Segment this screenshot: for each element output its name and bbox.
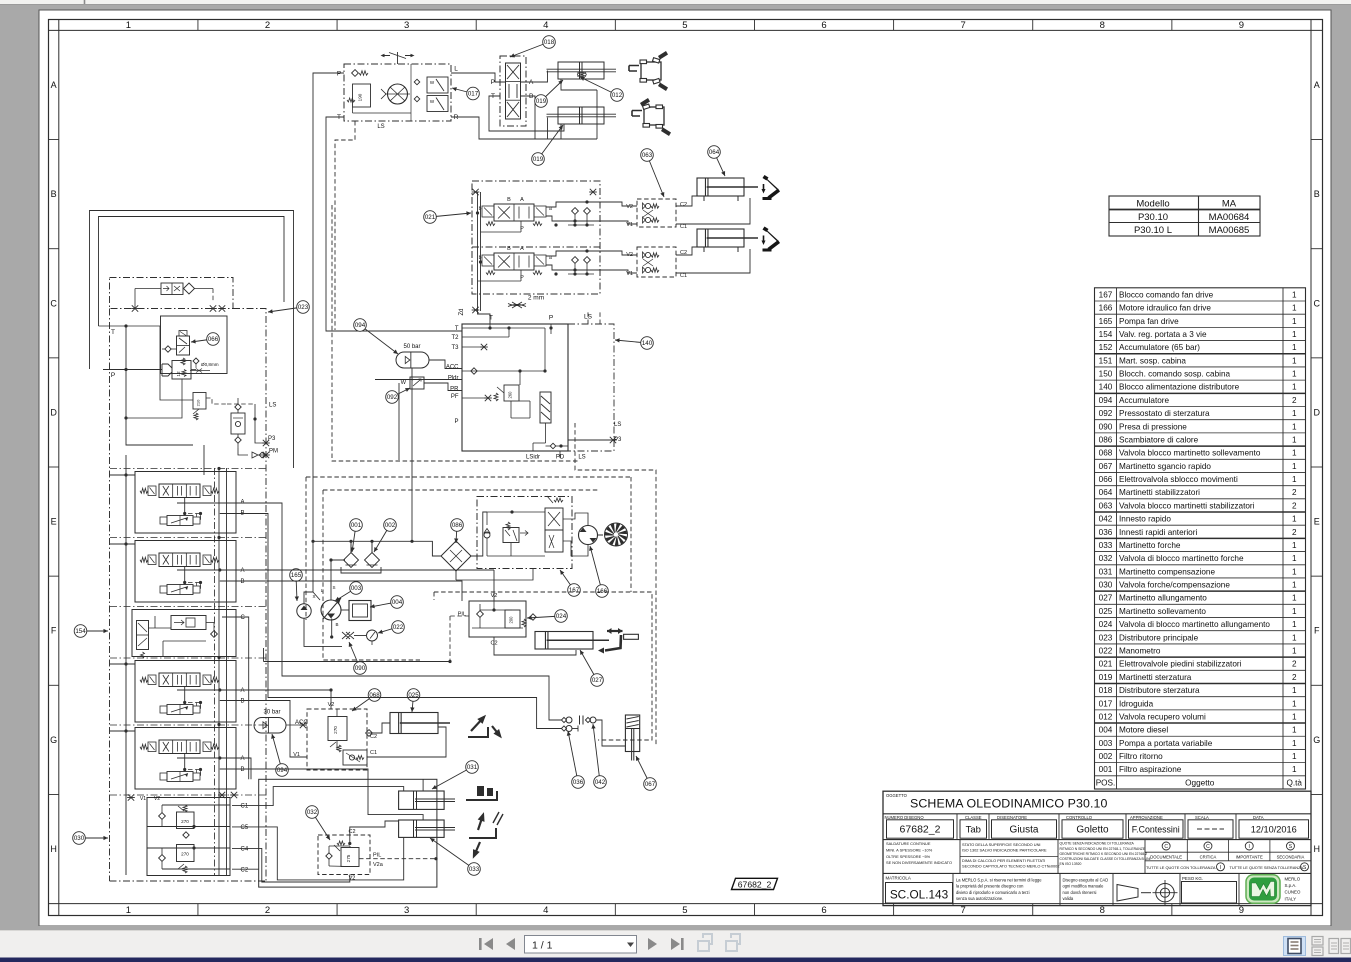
svg-text:S.p.A.: S.p.A. [1285, 883, 1297, 888]
stabilizer solenoid block 021 [472, 181, 600, 294]
wires 068 circuit [177, 690, 331, 709]
balloon 090 [349, 642, 367, 674]
svg-text:140: 140 [642, 340, 653, 347]
svg-text:GEOMETRICHE RITMICO K SECOND: GEOMETRICHE RITMICO K SECONDO UNI EN 227… [1060, 852, 1148, 856]
stabilizer cylinder 064 lower [697, 229, 758, 247]
first page button [479, 938, 493, 950]
svg-text:270: 270 [181, 819, 189, 824]
svg-text:OGGETTO: OGGETTO [886, 793, 908, 798]
balloon 019 [535, 80, 563, 107]
svg-text:Pompa fan drive: Pompa fan drive [1119, 317, 1179, 326]
svg-text:Martinetto sgancio rapido: Martinetto sgancio rapido [1119, 462, 1211, 471]
svg-text:Presa di pressione: Presa di pressione [1119, 422, 1187, 431]
steering directional valve 018 [500, 56, 526, 126]
svg-text:PF: PF [451, 394, 459, 400]
svg-text:L: L [454, 66, 458, 73]
svg-text:140: 140 [1099, 383, 1113, 392]
svg-text:Martinetto allungamento: Martinetto allungamento [1119, 594, 1207, 603]
svg-text:G: G [1313, 735, 1320, 745]
svg-text:C5: C5 [241, 825, 249, 831]
title block [883, 791, 1311, 905]
svg-text:B: B [241, 767, 245, 773]
svg-text:X: X [312, 594, 315, 599]
grid reference letters [49, 80, 1323, 854]
svg-text:017: 017 [468, 91, 479, 98]
fan drive control block 167 [477, 496, 572, 569]
svg-text:033: 033 [469, 866, 480, 873]
fan blades [605, 523, 628, 546]
svg-text:C1: C1 [680, 273, 687, 279]
svg-text:QUOTE SENZA INDICAZIONE DI TOL: QUOTE SENZA INDICAZIONE DI TOLLERANZA [1060, 842, 1135, 846]
svg-text:DIMA DI CALCOLO PER ELEMENTI F: DIMA DI CALCOLO PER ELEMENTI FILETTATI [962, 858, 1045, 863]
svg-text:Martinetto forche: Martinetto forche [1119, 541, 1181, 550]
svg-text:CRITICA: CRITICA [1200, 854, 1217, 859]
svg-text:017: 017 [1099, 699, 1113, 708]
svg-text:C: C [1164, 844, 1168, 850]
svg-text:2: 2 [1292, 501, 1297, 510]
cab suspension block 150 [110, 278, 234, 309]
svg-text:086: 086 [452, 522, 463, 529]
bank boundary separators [110, 468, 266, 470]
unlock solenoid valve 066 [162, 331, 190, 366]
svg-text:P3: P3 [268, 436, 276, 442]
distributor feed block 140 [462, 324, 614, 451]
parts list table [1095, 288, 1306, 789]
svg-text:042: 042 [595, 779, 606, 786]
svg-text:1: 1 [1292, 370, 1297, 379]
wires 021 to counterbalance [546, 202, 600, 207]
svg-text:165: 165 [291, 572, 302, 579]
svg-text:1: 1 [1292, 581, 1297, 590]
compensation cylinder 031 [399, 791, 455, 809]
svg-text:67682_2: 67682_2 [900, 824, 941, 836]
svg-text:019: 019 [1099, 673, 1113, 682]
svg-text:Martinetto sollevamento: Martinetto sollevamento [1119, 607, 1206, 616]
svg-text:V1: V1 [626, 271, 633, 277]
svg-text:9: 9 [1239, 20, 1244, 31]
svg-text:1: 1 [1292, 607, 1297, 616]
svg-text:A: A [241, 568, 245, 574]
svg-text:1: 1 [1292, 594, 1297, 603]
svg-text:1: 1 [1292, 422, 1297, 431]
svg-text:IMPORTANTE: IMPORTANTE [1236, 854, 1263, 859]
svg-text:024: 024 [556, 613, 567, 620]
balloon 023 [268, 301, 309, 314]
svg-text:A: A [520, 197, 524, 203]
wire P to steering [313, 73, 344, 600]
svg-text:004: 004 [392, 599, 403, 606]
svg-text:Valvola di blocco martinetto f: Valvola di blocco martinetto forche [1119, 554, 1244, 563]
balloon 018 [510, 36, 555, 58]
svg-text:Goletto: Goletto [1076, 825, 1109, 836]
svg-text:I: I [1249, 844, 1250, 850]
svg-text:003: 003 [1099, 739, 1113, 748]
svg-text:V2: V2 [626, 252, 633, 258]
svg-text:1: 1 [1292, 449, 1297, 458]
svg-text:063: 063 [1099, 501, 1113, 510]
accumulator 094 (30 bar) [254, 710, 308, 734]
svg-text:1: 1 [1292, 304, 1297, 313]
svg-text:021: 021 [1099, 660, 1113, 669]
svg-text:1: 1 [126, 905, 131, 916]
svg-text:H: H [1313, 844, 1320, 854]
svg-text:019: 019 [533, 156, 544, 163]
svg-text:SALDATURE CONTINUE: SALDATURE CONTINUE [886, 841, 931, 846]
svg-text:Valv. reg. portata a 3 vie: Valv. reg. portata a 3 vie [1119, 330, 1207, 339]
svg-text:C2: C2 [370, 734, 377, 740]
stabilizer movement icon upper [762, 175, 781, 200]
cooler outlet to fan block [471, 512, 487, 556]
balloon 019 [532, 125, 563, 165]
pump suction/delivery wires [350, 541, 352, 552]
svg-text:066: 066 [208, 336, 219, 343]
svg-text:150: 150 [1099, 370, 1113, 379]
svg-text:166: 166 [1099, 304, 1113, 313]
svg-text:4: 4 [543, 905, 548, 916]
svg-text:1: 1 [1292, 633, 1297, 642]
svg-text:036: 036 [573, 779, 584, 786]
return line to cooler [313, 541, 441, 556]
volume recovery valve 012 on piston [578, 73, 587, 77]
svg-text:W: W [401, 380, 407, 386]
svg-text:064: 064 [709, 149, 720, 156]
svg-text:A: A [529, 79, 534, 86]
balloon 032 [306, 806, 330, 840]
wires 063 to stabilizer cylinders [676, 196, 697, 206]
svg-text:Giusta: Giusta [1010, 825, 1039, 836]
svg-text:T3: T3 [451, 345, 459, 351]
lift cylinder 025 [390, 713, 450, 734]
svg-text:002: 002 [1099, 752, 1113, 761]
bank section 1 box [135, 472, 236, 534]
svg-text:CUNEO: CUNEO [1285, 890, 1301, 895]
svg-text:F.Contessini: F.Contessini [1132, 825, 1180, 835]
svg-text:B: B [241, 579, 245, 585]
bank section 2 box [135, 541, 236, 603]
svg-text:R: R [454, 114, 459, 121]
svg-text:T: T [337, 114, 341, 121]
quick coupler 042 [585, 717, 596, 723]
fork tilt icon [469, 812, 503, 859]
svg-text:G: G [50, 735, 57, 745]
balloon 025 [407, 689, 420, 712]
shuttle checks upper [572, 208, 579, 215]
svg-text:P: P [337, 71, 341, 78]
model table [1109, 196, 1260, 236]
svg-text:Accumulatore: Accumulatore [1119, 396, 1170, 405]
suction filter 001 [344, 541, 359, 568]
svg-text:6: 6 [821, 905, 826, 916]
page number combo [525, 936, 637, 954]
svg-text:022: 022 [393, 624, 404, 631]
svg-text:SECONDARIA: SECONDARIA [1277, 854, 1305, 859]
diesel engine gearbox 004 [341, 601, 371, 621]
svg-text:167: 167 [569, 587, 580, 594]
svg-text:Martinetto compensazione: Martinetto compensazione [1119, 567, 1215, 576]
svg-text:B: B [241, 699, 245, 705]
balloon 004 [370, 596, 403, 609]
balloon 154 [74, 625, 108, 638]
pressure gauge 022 [367, 630, 378, 645]
svg-text:022: 022 [1099, 647, 1113, 656]
coupler break [579, 716, 581, 725]
svg-text:D: D [1313, 407, 1320, 417]
wires compensation circuit [177, 758, 251, 779]
svg-text:divieto di riprodurlo e comuni: divieto di riprodurlo e comunicarlo a te… [956, 890, 1030, 895]
svg-text:154: 154 [75, 628, 86, 635]
svg-text:2: 2 [1292, 660, 1297, 669]
shuttle checks lower [572, 257, 579, 264]
svg-text:T: T [111, 329, 115, 336]
svg-text:Motore diesel: Motore diesel [1119, 726, 1168, 735]
Merlo logo [1246, 875, 1280, 904]
svg-text:1: 1 [1292, 541, 1297, 550]
svg-text:090: 090 [1099, 422, 1113, 431]
svg-text:V2a: V2a [373, 862, 384, 868]
svg-text:Valvola forche/compensazione: Valvola forche/compensazione [1119, 581, 1230, 590]
tank bracket [341, 567, 381, 573]
lines inlet -- [126, 326, 193, 445]
svg-text:031: 031 [1099, 567, 1113, 576]
svg-text:031: 031 [467, 764, 478, 771]
svg-text:MINI. A SPESSORE −10%: MINI. A SPESSORE −10% [886, 848, 933, 853]
svg-text:C2: C2 [241, 868, 249, 874]
svg-text:SCHEMA OLEODINAMICO P30.10: SCHEMA OLEODINAMICO P30.10 [910, 796, 1107, 810]
svg-text:POS.: POS. [1096, 778, 1116, 787]
svg-text:6: 6 [821, 20, 826, 31]
two-page layout button [1329, 939, 1351, 954]
svg-text:Innesti rapidi anteriori: Innesti rapidi anteriori [1119, 528, 1197, 537]
svg-text:151: 151 [1099, 356, 1113, 365]
svg-text:B: B [507, 197, 511, 203]
machine boundary dashed [332, 205, 578, 461]
extension cylinder 027 [535, 632, 609, 650]
svg-text:OLTRE SPESSORE −5%: OLTRE SPESSORE −5% [886, 854, 931, 859]
svg-text:1: 1 [1292, 712, 1297, 721]
svg-text:LSidr: LSidr [526, 455, 540, 461]
bank section 5 pilot valve [167, 772, 193, 782]
bank section 2 pilot valve [167, 585, 193, 595]
svg-text:Valvola di blocco martinetto a: Valvola di blocco martinetto allungament… [1119, 620, 1270, 629]
stabilizer cylinder 064 upper [697, 178, 758, 196]
balloon 064 [708, 146, 725, 176]
balloon 021 [424, 211, 471, 224]
grid reference numbers [126, 20, 1244, 916]
svg-text:PM: PM [269, 449, 278, 455]
svg-text:Zd: Zd [459, 308, 465, 315]
balloon 033 [430, 838, 480, 875]
svg-text:Accumulatore (65 bar): Accumulatore (65 bar) [1119, 343, 1200, 352]
inlet plate box [161, 316, 228, 374]
svg-text:025: 025 [1099, 607, 1113, 616]
svg-text:C: C [1206, 844, 1210, 850]
svg-text:Valvola blocco martinetti stab: Valvola blocco martinetti stabilizzatori [1119, 501, 1255, 510]
svg-text:Elettrovalvola sblocco movimen: Elettrovalvola sblocco movimenti [1119, 475, 1238, 484]
last page button [671, 938, 684, 950]
svg-text:LS: LS [578, 455, 585, 461]
svg-text:1: 1 [1292, 726, 1297, 735]
svg-text:1: 1 [1292, 620, 1297, 629]
svg-text:027: 027 [1099, 594, 1113, 603]
svg-text:1: 1 [1292, 554, 1297, 563]
balloon 067 [636, 756, 656, 790]
heat exchanger 086 [441, 541, 471, 580]
balloon 140 [615, 337, 653, 350]
svg-text:3: 3 [404, 20, 409, 31]
boundary 023 dash-dot [110, 309, 267, 882]
pressure switch 092 [401, 377, 462, 391]
svg-text:9: 9 [1239, 905, 1244, 916]
svg-text:P: P [454, 419, 458, 425]
balloon 063 [641, 149, 665, 197]
svg-text:MATRICOLA: MATRICOLA [886, 876, 911, 881]
svg-text:ogni modifica manuale: ogni modifica manuale [1063, 884, 1105, 889]
svg-text:COSTRUZIONI SALDATE CLASSE DI: COSTRUZIONI SALDATE CLASSE DI TOLLERANZA… [1060, 857, 1151, 861]
block 140 internals [462, 324, 568, 451]
svg-text:7: 7 [961, 20, 966, 31]
next page button [648, 938, 657, 950]
svg-text:B: B [507, 246, 511, 252]
drawing number flag 67682_2 [732, 878, 778, 889]
bank inlet regulator section [132, 610, 236, 659]
svg-text:C2: C2 [680, 202, 687, 208]
svg-text:021: 021 [425, 214, 436, 221]
wire Pldr [375, 379, 462, 381]
counterbalance valve block 063 lower [637, 247, 676, 277]
fan circuit wires [563, 513, 588, 526]
top toolbar remnant strip [0, 0, 1351, 5]
svg-text:Blocch. comando sosp. cabina: Blocch. comando sosp. cabina [1119, 370, 1230, 379]
svg-text:030: 030 [74, 835, 85, 842]
svg-text:1 / 1: 1 / 1 [532, 940, 553, 952]
svg-text:ITALY: ITALY [1285, 896, 1297, 901]
svg-text:167: 167 [1099, 290, 1113, 299]
svg-text:1: 1 [1292, 317, 1297, 326]
svg-text:E: E [1314, 517, 1320, 527]
balloon 042 [591, 724, 606, 788]
svg-text:2: 2 [1292, 673, 1297, 682]
svg-text:094: 094 [355, 322, 366, 329]
svg-text:Valvola blocco martinetto soll: Valvola blocco martinetto sollevamento [1119, 449, 1261, 458]
svg-text:30 bar: 30 bar [263, 710, 280, 716]
svg-text:E: E [51, 517, 57, 527]
svg-text:LS: LS [614, 422, 621, 428]
svg-text:Pressostato di sterzatura: Pressostato di sterzatura [1119, 409, 1210, 418]
svg-text:Filtro ritorno: Filtro ritorno [1119, 752, 1163, 761]
svg-text:1: 1 [1292, 409, 1297, 418]
svg-text:Elettrovalvole piedini stabili: Elettrovalvole piedini stabilizzatori [1119, 660, 1242, 669]
balloon 001 [350, 519, 363, 552]
svg-text:V1: V1 [626, 222, 633, 228]
svg-text:032: 032 [307, 809, 318, 816]
svg-text:5: 5 [682, 20, 687, 31]
svg-text:1: 1 [1292, 383, 1297, 392]
svg-text:Manometro: Manometro [1119, 647, 1161, 656]
svg-text:ISO 1302 SALVO INDICAZIONE PAR: ISO 1302 SALVO INDICAZIONE PARTICOLARE [962, 847, 1047, 852]
continuous layout button [1312, 937, 1323, 956]
svg-text:SC.OL.143: SC.OL.143 [890, 888, 949, 902]
single page layout button (active) [1284, 937, 1306, 956]
wires 024 circuit [494, 637, 576, 655]
svg-text:D: D [50, 407, 57, 417]
wire LS steering (pilot) [335, 121, 355, 330]
svg-text:260: 260 [508, 391, 513, 399]
svg-text:152: 152 [1099, 343, 1113, 352]
svg-text:LS: LS [269, 403, 276, 409]
svg-text:Modello: Modello [1136, 199, 1169, 210]
svg-text:C: C [241, 615, 246, 621]
balloon 167 [560, 570, 580, 596]
wire main left riser outer [90, 211, 294, 469]
svg-text:025: 025 [408, 692, 419, 699]
svg-text:003: 003 [351, 585, 362, 592]
svg-text:A: A [1314, 80, 1320, 90]
svg-text:V1: V1 [140, 796, 146, 802]
relief 210 [193, 393, 227, 421]
balloon 027 [580, 650, 603, 686]
svg-text:090: 090 [355, 665, 366, 672]
wire T from steering [326, 117, 462, 331]
svg-text:TUTTE LE QUOTE SENZA TOLLERANZ: TUTTE LE QUOTE SENZA TOLLERANZA [1230, 865, 1304, 870]
svg-text:001: 001 [351, 522, 362, 529]
svg-text:Tab: Tab [966, 825, 981, 836]
test point 090 [342, 632, 354, 639]
svg-text:Distributore sterzatura: Distributore sterzatura [1119, 686, 1200, 695]
pressure reducer 12 [103, 361, 191, 380]
svg-text:2: 2 [265, 20, 270, 31]
svg-text:P30.10 L: P30.10 L [1134, 225, 1172, 236]
balloon 086 [451, 519, 464, 543]
svg-text:001: 001 [1099, 765, 1113, 774]
balloon 002 [374, 519, 396, 552]
svg-text:1: 1 [1292, 343, 1297, 352]
svg-text:Idroguida: Idroguida [1119, 699, 1154, 708]
svg-text:V2: V2 [626, 204, 633, 210]
variable displacement pump 003 [312, 585, 341, 627]
fork block valve 032 [318, 835, 370, 875]
svg-text:032: 032 [1099, 554, 1113, 563]
svg-text:018: 018 [544, 39, 555, 46]
svg-text:PIL: PIL [373, 853, 381, 859]
svg-text:036: 036 [1099, 528, 1113, 537]
svg-text:8: 8 [1100, 20, 1105, 31]
svg-text:H: H [50, 844, 57, 854]
svg-text:MA: MA [1222, 199, 1237, 210]
LS line to P3 [559, 451, 561, 458]
steering axle icon upper [629, 51, 668, 91]
svg-text:Oggetto: Oggetto [1185, 778, 1215, 787]
svg-text:200: 200 [509, 616, 514, 624]
svg-text:F: F [1314, 626, 1320, 636]
svg-text:Motore idraulico fan drive: Motore idraulico fan drive [1119, 304, 1211, 313]
bank section 4 main spool [159, 673, 200, 687]
svg-text:C1: C1 [241, 804, 249, 810]
svg-text:8: 8 [1100, 905, 1105, 916]
svg-text:094: 094 [277, 767, 288, 774]
svg-text:A: A [51, 80, 57, 90]
svg-text:B: B [1314, 189, 1320, 199]
svg-text:P: P [111, 372, 115, 379]
lift holding valve block 068 [307, 709, 372, 770]
fork shift icon [466, 786, 497, 800]
LS dashed rail [599, 310, 601, 324]
svg-text:066: 066 [1099, 475, 1113, 484]
svg-text:2: 2 [1292, 528, 1297, 537]
svg-text:EN ISO 13920: EN ISO 13920 [1060, 862, 1082, 866]
svg-text:165: 165 [1099, 317, 1113, 326]
svg-text:SECONDO CAPITOLATO TECNICO ME: SECONDO CAPITOLATO TECNICO MERLO CT№0002 [962, 864, 1060, 869]
svg-text:275: 275 [346, 854, 351, 862]
